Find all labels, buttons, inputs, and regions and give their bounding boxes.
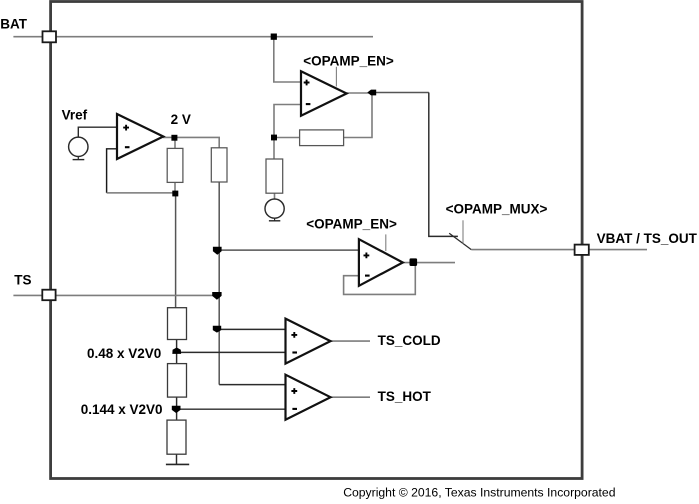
svg-text:Copyright © 2016, Texas Instru: Copyright © 2016, Texas Instruments Inco… [343,486,615,500]
U5 minus sign [292,408,297,410]
label pointer OPAMP_MUX [462,220,464,243]
wire node A to R3 left [274,137,300,139]
resistor R1 [167,148,183,182]
wire node BAT to U2 plus input [274,37,302,82]
wire VBAT / TS_OUT lead [471,249,647,251]
pin VBAT / TS_OUT [575,245,589,255]
wire U5 plus input [219,384,285,386]
wire V2 source bottom stub [274,218,276,220]
resistor R6 [168,364,187,398]
wire U3 feedback loop [344,263,416,295]
source V1 Vref [69,137,88,156]
junction node TS [212,292,221,300]
resistor R2 [211,148,227,182]
svg-text:0.48 x V2V0: 0.48 x V2V0 [87,346,161,361]
wire U3 plus input [219,249,359,251]
svg-text:<OPAMP_EN>: <OPAMP_EN> [303,53,394,68]
op-amp U5 [286,375,331,420]
svg-text:<OPAMP_EN>: <OPAMP_EN> [306,216,397,231]
wire R7 bottom to ground [176,454,178,464]
junction node A [271,135,277,141]
switch S1 blade [449,233,471,249]
svg-text:0.144 x V2V0: 0.144 x V2V0 [81,402,163,417]
wire TS lead [13,294,216,296]
junction node TS_COLD [213,326,221,333]
op-amp U4 [286,319,331,364]
op-amp U2 [301,71,347,116]
wire U5 minus input [177,408,286,410]
U2 plus sign [304,80,310,86]
wire node A to R4 top [273,138,275,160]
U4 plus sign [291,332,297,338]
resistor R3 [300,130,344,146]
U1 plus sign [123,125,129,131]
wire R1 top stub [174,138,176,149]
junction node 0.144 [172,406,181,413]
wire R3 right to U2 output junction [344,93,372,138]
wire U2 minus input loop [274,105,302,138]
junction node 2V [171,135,177,141]
junction U2 output [367,90,376,96]
wire R1 bottom stub [174,182,176,193]
wire BAT lead [13,36,373,38]
wire node B chain vertical to R5 [175,193,177,307]
svg-text:Vref: Vref [62,108,88,123]
U1 minus sign [125,146,130,148]
wire Vref source bottom stub [77,157,79,160]
wire U4 plus input [219,328,285,330]
ground [166,463,189,465]
U3 plus sign [364,253,370,259]
svg-text:VBAT / TS_OUT: VBAT / TS_OUT [597,231,698,246]
wire U2 output junction to switch drop [372,92,429,94]
wire R4 bottom to source V2 [274,193,276,199]
wire R5 bottom to R6 top [176,340,178,364]
svg-text:2 V: 2 V [171,112,191,127]
wire V2 source bottom bar [269,220,280,222]
wire U4 minus input [177,351,286,353]
wire U5 output stub [331,396,371,398]
U4 minus sign [292,351,297,353]
wire U1 feedback vertical [107,149,117,193]
wire U3 output stub [403,262,455,264]
op-amp U3 [359,239,403,286]
wire R6 bottom to R7 top [176,397,178,420]
junction node TS line upper [213,247,222,255]
resistor R5 [168,308,187,340]
label pointer OPAMP_EN U3 [385,234,387,251]
wire U2 output to junction [347,92,372,94]
wire Vref source to U1 plus input [78,127,117,137]
junction node 0.48 [172,348,181,354]
svg-text:TS: TS [14,273,31,288]
junction on BAT line [271,34,277,40]
pin TS [42,290,55,301]
wire R2 bottom long vertical to TS_HOT plus corner [218,182,220,385]
pin BAT [43,31,57,42]
wire U1 feedback bottom horizontal [107,192,175,194]
resistor R7 [167,420,186,454]
U2 minus sign [306,103,311,105]
junction U3 output [410,258,418,266]
svg-text:BAT: BAT [0,16,27,31]
wire Vref source bottom bar [73,159,85,161]
junction U1 feedback [172,191,178,197]
U3 minus sign [365,275,370,277]
op-amp U1 [117,114,163,159]
resistor R4 [266,159,283,193]
svg-text:TS_HOT: TS_HOT [378,389,432,404]
svg-text:TS_COLD: TS_COLD [378,333,441,348]
wire U4 output stub [331,340,371,342]
source V2 [265,199,284,218]
IC boundary box [51,2,583,479]
svg-text:<OPAMP_MUX>: <OPAMP_MUX> [446,202,548,217]
label pointer OPAMP_EN U2 [335,67,337,87]
wire U1 output to R2 [163,137,219,148]
wire switch drop vertical and contact stub [429,93,458,237]
U5 plus sign [291,388,297,394]
